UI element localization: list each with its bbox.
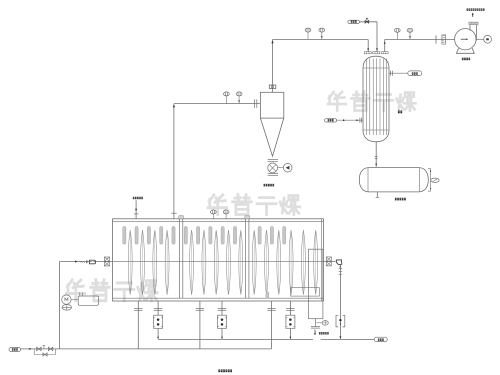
dryer bottom drop 6 with rotary valve bbox=[289, 301, 291, 315]
label: chamber outlet text bbox=[319, 332, 321, 334]
flange under cyclone cone bbox=[268, 158, 278, 160]
watermark bottom left bbox=[66, 280, 157, 301]
cyclone cone bbox=[260, 118, 283, 156]
valve on lower line 1 bbox=[37, 347, 41, 350]
dryer bottom drop 1 plain bbox=[137, 301, 139, 349]
valve on feed line bbox=[89, 260, 95, 264]
rotary feeder small on outlet bbox=[336, 260, 341, 265]
valve on bypass bbox=[43, 353, 47, 356]
dryer inner bottom line bbox=[113, 297, 324, 299]
instrument bubble on dryer lid 2 bbox=[223, 210, 229, 214]
instrument bubble on gas line 1 bbox=[305, 28, 311, 32]
wire: cyclone outlet to condenser inlet bbox=[273, 39, 369, 41]
dryer paddle discs bbox=[128, 230, 132, 294]
damper on cyclone outlet pipe bbox=[269, 85, 276, 88]
dryer discharge chamber bbox=[309, 249, 323, 319]
label capsule: right nozzle bbox=[408, 71, 422, 76]
arrow at cyclone outlet riser top bbox=[271, 41, 273, 44]
instrument bubble on fan line 1 bbox=[394, 28, 400, 32]
wire: dryer product outlet right bbox=[323, 260, 335, 262]
chamber bottom instrument bubble bbox=[316, 322, 322, 324]
label: condenser tag A6 bbox=[398, 110, 400, 113]
fan / blower T06 bbox=[455, 29, 476, 50]
wire: horizontal duct to cyclone inlet bbox=[174, 103, 261, 105]
instrument bubble on dryer lid 1 bbox=[210, 210, 216, 214]
dryer shaft centerline bbox=[113, 260, 324, 262]
dryer bottom drop 4 with rotary valve bbox=[221, 301, 223, 315]
fan motor bbox=[476, 38, 484, 40]
label capsule: cooling water bbox=[325, 119, 337, 122]
wire: condenser vapour outlet riser bbox=[384, 40, 386, 52]
condenser right nozzle to vent label bbox=[389, 72, 408, 74]
flexible joint bellows bbox=[442, 35, 446, 44]
fan base bbox=[456, 48, 474, 53]
instrument bubble on gas line 2 with arrow bbox=[319, 28, 325, 32]
dryer shaft bearing bar left bbox=[179, 216, 181, 298]
flex hose ticks bbox=[339, 268, 343, 270]
wire: condenser inlet drop bbox=[367, 40, 369, 52]
arrow at exhaust riser top bbox=[173, 105, 175, 108]
dryer inner right line bbox=[321, 219, 323, 301]
dryer top paddle stubs bbox=[123, 226, 126, 244]
receiver level instrument bubble bbox=[431, 178, 439, 182]
label capsule: steam/HBA inlet bbox=[348, 20, 360, 23]
wire: cooling water line bbox=[337, 119, 363, 121]
label: receiver tag bbox=[395, 198, 397, 201]
flange below rotary valve bbox=[268, 173, 278, 175]
discharge chamber inner box bbox=[291, 288, 320, 296]
feeder coupling circle bbox=[62, 304, 71, 310]
wire: motor to feeder body bbox=[71, 298, 78, 300]
receiver level gauge standpipe bbox=[430, 169, 432, 192]
instrument bubble TI on duct bbox=[224, 92, 230, 96]
chamber outlet arrow down bbox=[314, 330, 316, 334]
label: fan tag bbox=[462, 58, 464, 61]
flange tick on exhaust riser bbox=[171, 212, 177, 214]
wire: center nozzle drop bbox=[376, 22, 378, 52]
bypass loop under lower line bbox=[34, 349, 55, 355]
dryer bottom drop 3 plain bbox=[199, 301, 201, 349]
valve on lower line 2 bbox=[48, 347, 52, 350]
condenser top flange group 1 bbox=[364, 52, 371, 54]
watermark center bbox=[208, 195, 300, 215]
small vent valve on lower line bbox=[43, 345, 45, 349]
motor of rotary valve bbox=[278, 167, 284, 169]
wire: feed riser bbox=[59, 262, 61, 349]
receiver left head bbox=[359, 168, 368, 192]
cyclone separator body bbox=[260, 92, 283, 118]
wire: product drop line right bbox=[339, 265, 341, 340]
wire: condenser outlet to fan suction bbox=[385, 39, 455, 41]
receiver drain bbox=[376, 192, 378, 198]
label: drawing title bottom bbox=[218, 369, 220, 372]
wire: lower collection line bbox=[21, 348, 272, 350]
condenser shell U1 bbox=[363, 56, 389, 142]
wire: dryer exhaust riser to cyclone duct bbox=[173, 104, 175, 219]
wire: valve collection header bbox=[158, 338, 313, 340]
screw feeder body bbox=[78, 296, 98, 305]
label: exhaust to atmosphere bbox=[467, 8, 469, 10]
fan outlet duct bbox=[469, 25, 471, 31]
arrow on N2 inlet bbox=[135, 209, 137, 211]
wire: N2 inlet drop into dryer lid bbox=[135, 200, 137, 219]
flange tick on N2 inlet bbox=[134, 213, 139, 215]
wire: HBA label to condenser center nozzle bbox=[359, 21, 377, 23]
wire: feed line into dryer bbox=[60, 261, 113, 263]
wire: cyclone gas outlet pipe up bbox=[272, 40, 274, 93]
dryer inner lid line bbox=[113, 221, 324, 223]
watermark top right bbox=[328, 92, 416, 111]
instrument bubble PI on duct with arrow bbox=[236, 92, 242, 96]
instrument bubble on fan line 2 with arrow bbox=[407, 28, 413, 32]
wire: condenser bottom outlet to receiver bbox=[375, 142, 377, 167]
pinch valve on product drop bbox=[336, 315, 338, 327]
dryer bottom drop 5 plain bbox=[271, 301, 273, 349]
arrow: lower line discharge left bbox=[28, 348, 30, 350]
dryer bottom stub bbox=[266, 292, 269, 299]
receiver tank shell bbox=[368, 167, 420, 169]
dryer shaft bearing bar right bbox=[245, 216, 247, 298]
valve on HBA line bbox=[365, 20, 369, 23]
label: cyclone tag text bbox=[264, 184, 266, 187]
condenser top flange group 2 bbox=[373, 52, 380, 54]
feeder motor M bbox=[62, 295, 71, 304]
condenser tubes bbox=[365, 59, 367, 136]
flange squares at dryer feed inlet bbox=[104, 257, 109, 261]
label capsule: header destination bbox=[374, 337, 387, 341]
flexible coupling dashes on feed line bbox=[80, 261, 81, 263]
feeder inlet neck bbox=[79, 292, 81, 296]
label capsule: lower line destination bbox=[9, 348, 21, 352]
condenser top flange group 3 bbox=[381, 52, 388, 54]
flange pair at cyclone inlet bbox=[254, 99, 256, 108]
receiver right head bbox=[420, 168, 429, 192]
discharge chamber bottom flange bbox=[314, 319, 316, 327]
fan inner arrow bbox=[461, 38, 467, 40]
flexible joint tick bbox=[435, 35, 437, 43]
label: nitrogen inlet tag bbox=[133, 197, 135, 199]
exhaust arrow up bbox=[472, 14, 474, 17]
flange squares at dryer outlet bbox=[326, 257, 331, 261]
dryer bottom drop 2 with rotary valve bbox=[157, 301, 159, 315]
tick on feed line bbox=[86, 260, 88, 263]
rotary airlock valve under cyclone bbox=[268, 163, 278, 173]
paddle dryer outer box bbox=[113, 219, 324, 301]
